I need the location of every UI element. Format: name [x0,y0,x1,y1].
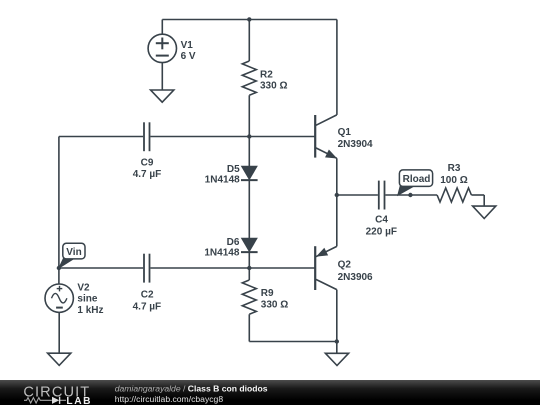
svg-text:2N3906: 2N3906 [338,272,373,283]
svg-text:4.7 µF: 4.7 µF [133,169,162,180]
svg-text:2N3904: 2N3904 [338,139,373,150]
svg-text:100 Ω: 100 Ω [440,175,467,186]
svg-text:Vin: Vin [66,247,81,258]
svg-text:1N4148: 1N4148 [205,174,240,185]
svg-text:1 kHz: 1 kHz [77,305,103,316]
svg-text:Q1: Q1 [338,127,352,138]
svg-text:4.7 µF: 4.7 µF [133,301,162,312]
svg-text:V1: V1 [181,40,194,51]
svg-text:D6: D6 [227,237,240,248]
svg-text:LAB: LAB [66,396,92,405]
svg-text:6 V: 6 V [181,51,196,62]
svg-text:1N4148: 1N4148 [204,248,239,259]
svg-text:C9: C9 [141,158,154,169]
svg-text:D5: D5 [227,164,240,175]
svg-text:http://circuitlab.com/cbaycg8: http://circuitlab.com/cbaycg8 [115,394,224,404]
svg-text:330 Ω: 330 Ω [260,81,287,92]
svg-text:R2: R2 [260,69,273,80]
svg-text:V2: V2 [77,283,90,294]
svg-text:C4: C4 [375,215,388,226]
svg-text:220 µF: 220 µF [366,227,397,238]
svg-text:Q2: Q2 [338,260,352,271]
svg-text:sine: sine [77,293,97,304]
svg-text:R3: R3 [448,163,461,174]
svg-text:C2: C2 [141,290,154,301]
svg-text:damiangarayalde / Class B con: damiangarayalde / Class B con diodos [115,384,268,394]
svg-text:Rload: Rload [403,174,431,185]
svg-text:330 Ω: 330 Ω [261,299,288,310]
svg-text:R9: R9 [261,288,274,299]
